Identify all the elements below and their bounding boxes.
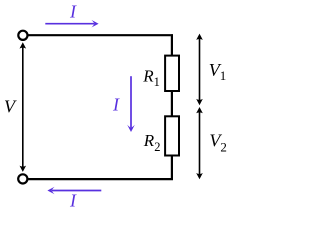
svg-text:I: I bbox=[112, 95, 120, 115]
terminal top-left bbox=[18, 31, 27, 40]
wire top bbox=[28, 34, 171, 36]
wire bottom bbox=[28, 178, 174, 180]
resistor R2 bbox=[165, 116, 179, 155]
svg-text:R1: R1 bbox=[142, 67, 160, 89]
current arrow I bottom bbox=[47, 187, 101, 195]
wire between R1 and R2 bbox=[171, 91, 173, 117]
wire right upper bbox=[171, 34, 173, 56]
svg-text:V2: V2 bbox=[209, 131, 227, 155]
svg-text:V: V bbox=[4, 97, 17, 117]
voltage arrow V (double-headed) bbox=[20, 42, 27, 172]
svg-text:V1: V1 bbox=[209, 60, 227, 83]
terminal bottom-left bbox=[18, 174, 27, 183]
current arrow I middle bbox=[127, 76, 135, 132]
resistor R1 bbox=[165, 56, 179, 91]
current arrow I top bbox=[45, 20, 98, 28]
voltage arrow V2 (double-headed) bbox=[196, 107, 203, 179]
voltage arrow V1 (double-headed) bbox=[196, 34, 203, 106]
svg-text:I: I bbox=[69, 1, 77, 21]
wire right lower bbox=[171, 155, 173, 179]
svg-text:I: I bbox=[69, 191, 77, 211]
svg-text:R2: R2 bbox=[143, 131, 161, 154]
